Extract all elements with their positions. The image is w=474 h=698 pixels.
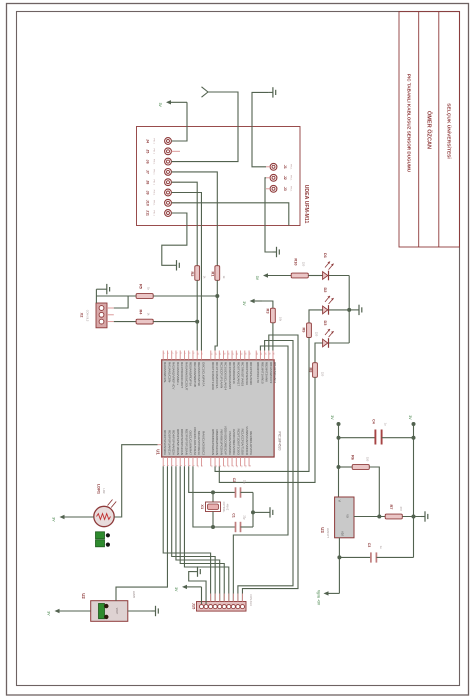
resistor R3 <box>266 308 283 323</box>
connector pad J11 <box>146 210 181 217</box>
svg-text:PIN 1: PIN 1 <box>153 149 155 155</box>
label X2 <box>80 310 89 322</box>
resistor R5 <box>136 284 153 298</box>
wire pad J2 to ground <box>265 178 273 252</box>
svg-text:C1: C1 <box>232 513 236 518</box>
svg-text:OSC2/CLKOUT/RA6: OSC2/CLKOUT/RA6 <box>193 427 197 455</box>
title text SELCUK UNIVERSITESI <box>446 103 453 159</box>
svg-text:PIN 1: PIN 1 <box>153 190 155 196</box>
wire X2 left to ground <box>95 289 97 303</box>
wire U1 pin to J15 pad 5 <box>176 466 220 604</box>
svg-text:Vgiris +3V: Vgiris +3V <box>317 590 321 606</box>
svg-text:PIN 1: PIN 1 <box>290 186 292 192</box>
svg-text:4MHZ: 4MHZ <box>226 504 229 511</box>
svg-text:RD0/PSP0/AN19: RD0/PSP0/AN19 <box>245 362 249 385</box>
svg-text:MCLR/VPP/RE3A: MCLR/VPP/RE3A <box>197 431 201 455</box>
svg-text:ADJ: ADJ <box>341 531 344 536</box>
svg-text:RC1/CCP2A/T1OSI: RC1/CCP2A/T1OSI <box>241 429 245 456</box>
wire LDR to U1 left pin <box>114 445 157 517</box>
label U2 <box>81 591 136 599</box>
svg-text:J9: J9 <box>146 190 150 194</box>
svg-text:U3: U3 <box>320 527 325 533</box>
svg-text:22p: 22p <box>242 515 245 520</box>
svg-text:J3: J3 <box>283 187 287 191</box>
wire R4 to R2 node <box>153 321 197 323</box>
wire pad J9 down <box>171 193 201 351</box>
wire MCU RB pin to J15 pad 9 <box>238 341 293 605</box>
wire 3V to pad J4 <box>171 102 187 141</box>
wire D1 cathode to rail <box>329 275 349 277</box>
wire R5 left <box>96 295 136 297</box>
svg-text:3V: 3V <box>255 276 259 281</box>
svg-text:C2: C2 <box>232 478 236 483</box>
svg-text:R8: R8 <box>308 368 313 374</box>
svg-text:J6: J6 <box>146 160 150 164</box>
wire D3 cathode to rail <box>329 342 349 344</box>
svg-text:RB2/INT2/AN8: RB2/INT2/AN8 <box>265 362 269 382</box>
wire antenna to pad J6 <box>171 92 238 162</box>
wire R8 to MCU pin <box>219 377 315 482</box>
power arrow 3V for R10 <box>255 273 291 280</box>
svg-text:RA3/AN3/VREF+: RA3/AN3/VREF+ <box>176 362 180 385</box>
power arrow 3V for R3 <box>242 299 262 306</box>
connector pad J8 <box>146 179 181 186</box>
LED D2 <box>323 288 334 315</box>
svg-text:PIN 1: PIN 1 <box>153 138 155 144</box>
svg-text:J8: J8 <box>146 180 150 184</box>
svg-text:470: 470 <box>399 506 403 511</box>
wire pad J8 to R2 <box>171 182 197 266</box>
svg-text:C3: C3 <box>367 543 371 548</box>
svg-text:J10: J10 <box>146 200 150 206</box>
svg-text:RC4/SDI/SDA/AN15: RC4/SDI/SDA/AN15 <box>228 362 232 390</box>
svg-text:R9: R9 <box>301 328 306 334</box>
svg-text:RB7/KBI3/PGD/AN: RB7/KBI3/PGD/AN <box>219 429 223 455</box>
terminal block X2 <box>96 303 114 328</box>
wire U3 VO to R7 <box>354 516 385 518</box>
node 3V right rail <box>408 415 415 426</box>
LED D3 <box>323 321 334 348</box>
svg-text:X2: X2 <box>80 313 85 319</box>
U1 pin numbers <box>162 353 274 469</box>
svg-text:RB6/KBI2/PGC/AN: RB6/KBI2/PGC/AN <box>215 429 219 455</box>
wire D2 anode to R9 <box>309 310 323 323</box>
svg-text:3V: 3V <box>158 103 162 108</box>
capacitor C3 <box>339 543 413 563</box>
svg-text:RB3/AN9/CCP2: RB3/AN9/CCP2 <box>269 362 273 384</box>
sensor U2 LM35 body <box>91 601 128 622</box>
wire pad J7 to R1 <box>171 172 217 266</box>
label PIC18F4520 <box>278 431 282 450</box>
svg-text:VDD/VDDCORE/CAP: VDD/VDDCORE/CAP <box>224 426 228 455</box>
svg-text:RD1/PSP1/AN20: RD1/PSP1/AN20 <box>249 362 253 385</box>
svg-text:22p: 22p <box>242 480 245 485</box>
wire X2 pin1 jog to R5 net <box>114 296 128 308</box>
node OSC1 <box>211 490 215 494</box>
ground U2 <box>128 606 159 616</box>
label UDEA UFM-M11 <box>303 185 309 224</box>
resistor R8 <box>308 363 324 378</box>
svg-text:RB5/KBI1/PGM/AN: RB5/KBI1/PGM/AN <box>211 429 215 455</box>
svg-text:VSS/AVSS/GNDA: VSS/AVSS/GNDA <box>228 431 232 455</box>
svg-text:220: 220 <box>321 372 325 377</box>
svg-text:PIC TABANLI KABLOSUZ SENSOR DU: PIC TABANLI KABLOSUZ SENSOR DUGUMU <box>407 74 412 173</box>
wire R2 to MCU <box>195 280 199 350</box>
svg-text:J1: J1 <box>283 165 287 169</box>
antenna <box>202 87 209 97</box>
svg-text:RA0/AN0/C1IN-: RA0/AN0/C1IN- <box>163 362 167 383</box>
wire left rail <box>337 424 341 497</box>
connector pad J1 <box>266 163 292 170</box>
svg-text:RB1/INT1/AN10: RB1/INT1/AN10 <box>260 362 264 384</box>
svg-text:CON-SIL9: CON-SIL9 <box>249 594 252 606</box>
wire U2 VOUT to U1 <box>116 466 167 601</box>
wire U3 ADJ down <box>337 538 341 594</box>
ground R7 <box>403 511 428 521</box>
svg-text:OSC1/CLKIN/RA7: OSC1/CLKIN/RA7 <box>189 430 193 455</box>
svg-text:J5: J5 <box>146 149 150 153</box>
resistor R10 <box>291 258 308 277</box>
svg-text:PIN 1: PIN 1 <box>290 164 292 170</box>
svg-text:RD3/PSP3/AN21A: RD3/PSP3/AN21A <box>167 430 171 455</box>
svg-text:R10: R10 <box>293 258 298 265</box>
wire U1 pin to J15 pad 7 <box>184 466 228 604</box>
connector pad J5 <box>146 148 181 155</box>
wire R1 to MCU <box>215 280 219 350</box>
power arrow 3V LDR <box>52 515 94 522</box>
svg-text:C4: C4 <box>371 419 375 424</box>
regulator U3 body <box>335 497 354 538</box>
wire MCU RB pin to J15 pad 10 <box>242 335 298 604</box>
svg-text:RC2/CCP1/P1A/AN: RC2/CCP1/P1A/AN <box>219 362 223 388</box>
svg-text:PIN 1: PIN 1 <box>153 179 155 185</box>
U1 left side pin stub RA6 <box>158 444 162 446</box>
connector pad J2 <box>266 174 292 181</box>
ground crystal <box>253 507 273 517</box>
svg-text:R6: R6 <box>350 455 355 461</box>
wire D2 cathode to rail <box>329 309 349 311</box>
svg-text:D3: D3 <box>323 321 328 327</box>
svg-text:CRYSTAL: CRYSTAL <box>222 502 225 513</box>
power arrow 3V U2 <box>47 609 91 616</box>
svg-text:RC0/T1OSO/T13CKI: RC0/T1OSO/T13CKI <box>211 362 215 390</box>
U1 pin stubs <box>163 351 273 467</box>
wire R3 to MCU <box>272 323 274 351</box>
resistor R9 <box>301 323 318 338</box>
wire R6 to R7 node <box>369 467 381 519</box>
svg-text:X1: X1 <box>200 504 205 510</box>
svg-text:3V: 3V <box>330 415 334 420</box>
microcontroller U1 PIC18F4520 body <box>162 360 274 457</box>
title text OMER OZCAN <box>425 111 432 149</box>
svg-text:PIN 1: PIN 1 <box>153 159 155 165</box>
capacitor C2 <box>213 478 253 498</box>
svg-text:220: 220 <box>301 262 305 267</box>
connector pad J10 <box>146 199 181 206</box>
svg-text:J2: J2 <box>283 176 287 180</box>
ground J15 pin2 <box>189 566 206 604</box>
svg-text:RA6/CLKO/OSC2: RA6/CLKO/OSC2 <box>201 431 205 455</box>
wire U1 OSC2 to crystal <box>193 466 213 527</box>
resistor R6 <box>339 455 370 469</box>
svg-text:RE0/AN5/RD/P3A: RE0/AN5/RD/P3A <box>189 362 193 386</box>
svg-text:RA4/T0CKI/C1OUT: RA4/T0CKI/C1OUT <box>180 362 184 388</box>
connector J15 body <box>197 594 247 612</box>
ground X2 <box>96 284 109 294</box>
wire U1 OSC1 to crystal <box>189 466 213 492</box>
wire R10 to D1 <box>308 275 322 277</box>
svg-text:VO: VO <box>346 514 349 518</box>
svg-text:LDR1: LDR1 <box>97 484 102 495</box>
power arrow 3V J15 <box>174 585 201 604</box>
title text PIC TABANLI KABLOSUZ SENSOR DUGUMU <box>407 74 412 173</box>
wire R5 to R1 node <box>153 295 217 297</box>
svg-text:330: 330 <box>365 457 369 462</box>
svg-text:R5: R5 <box>138 284 143 290</box>
wire 3V to R3 <box>262 301 273 308</box>
connector pad J6 <box>146 158 181 165</box>
power arrow 3V top <box>158 100 187 107</box>
svg-text:J15: J15 <box>192 603 197 610</box>
svg-text:LDR: LDR <box>102 488 105 493</box>
ground below RF box left <box>173 260 180 270</box>
resistor R2 <box>190 266 207 281</box>
svg-text:PIN 1: PIN 1 <box>153 210 155 216</box>
connector pad J9 <box>146 189 181 196</box>
wire pad J10 long <box>171 203 288 226</box>
svg-text:RD2/PSP2/AN20A: RD2/PSP2/AN20A <box>163 430 167 455</box>
svg-text:UDEA UFM-M11: UDEA UFM-M11 <box>303 185 309 224</box>
svg-text:RE2/AN7/CS/P3C: RE2/AN7/CS/P3C <box>197 362 201 387</box>
svg-text:RA5/AN4/SS/C2OUT: RA5/AN4/SS/C2OUT <box>184 362 188 391</box>
wire U1 pin to J15 pad 4 <box>172 466 215 604</box>
svg-text:RC1/T1OSI/CCP2A: RC1/T1OSI/CCP2A <box>215 362 219 388</box>
resistor R1 <box>211 266 226 281</box>
svg-text:D2: D2 <box>323 288 328 294</box>
svg-text:PIN 1: PIN 1 <box>153 169 155 175</box>
wire pad J11 to ground zigzag <box>162 213 187 265</box>
svg-text:ÖMER ÖZCAN: ÖMER ÖZCAN <box>425 111 432 149</box>
svg-text:R3: R3 <box>266 309 271 315</box>
RF module box UDEA UFM-M11 <box>137 127 301 226</box>
wire U1 pin to J15 pad 3 <box>163 466 210 604</box>
svg-text:RB4/KBI0/AN11: RB4/KBI0/AN11 <box>273 362 277 384</box>
node OSC2 <box>211 525 215 529</box>
LED cathode rail <box>347 276 351 344</box>
svg-text:RD5/PSP5/P1B/AN: RD5/PSP5/P1B/AN <box>176 429 180 455</box>
resistor R4 <box>136 310 153 324</box>
wire R9 to MCU pin <box>215 337 309 471</box>
ground below RF box right <box>273 247 280 257</box>
label U3 <box>320 527 330 538</box>
ground top right <box>252 87 276 167</box>
connector pad J3 <box>266 185 292 192</box>
svg-text:U2: U2 <box>81 593 86 599</box>
title block box <box>399 12 460 247</box>
svg-text:RD6/PSP6/P1C/AN: RD6/PSP6/P1C/AN <box>180 429 184 455</box>
svg-text:220: 220 <box>315 332 319 337</box>
svg-text:RD7/PSP7/P1D/AN: RD7/PSP7/P1D/AN <box>184 429 188 455</box>
capacitor C1 <box>213 513 253 532</box>
svg-text:3V: 3V <box>52 517 56 522</box>
svg-text:VI: VI <box>337 500 340 503</box>
svg-text:10k: 10k <box>278 317 282 322</box>
svg-text:3V: 3V <box>174 587 178 592</box>
svg-text:PIC18F4520: PIC18F4520 <box>278 431 282 450</box>
svg-text:D1: D1 <box>323 253 328 259</box>
crystal X1 <box>200 492 229 527</box>
svg-text:PIN 1: PIN 1 <box>290 175 292 181</box>
resistor R7 <box>385 505 403 519</box>
label U1 <box>156 449 161 455</box>
svg-text:U1: U1 <box>156 449 161 455</box>
svg-text:RE1/AN6/WR/P3B: RE1/AN6/WR/P3B <box>193 362 197 387</box>
svg-text:SELÇUK ÜNİVERSİTESİ: SELÇUK ÜNİVERSİTESİ <box>446 103 453 159</box>
svg-text:RE3/MCLR/VPPA: RE3/MCLR/VPPA <box>249 431 253 455</box>
svg-text:RC5/SDO/AN16: RC5/SDO/AN16 <box>232 362 236 384</box>
LED D1 <box>323 253 334 280</box>
svg-text:RC7/RX/DT/AN18: RC7/RX/DT/AN18 <box>241 362 245 387</box>
svg-text:R7: R7 <box>389 505 394 510</box>
label J15 <box>192 594 252 610</box>
wire crystal cap rail <box>251 492 255 527</box>
svg-text:OSC1/CLKI/RA7A: OSC1/CLKI/RA7A <box>201 362 205 386</box>
svg-text:J11: J11 <box>146 210 150 216</box>
svg-text:LM317T: LM317T <box>326 528 330 539</box>
jumper pads below LDR <box>96 532 111 547</box>
capacitor C4 <box>339 419 414 444</box>
wire X2 pin3 to R4 <box>114 321 136 323</box>
svg-text:PIN 1: PIN 1 <box>153 200 155 206</box>
power input Vgiris +3V <box>317 590 340 606</box>
svg-text:VUSB/VCAP/VDDCR: VUSB/VCAP/VDDCR <box>245 426 249 456</box>
wire U1 pin to J15 pad 6 <box>180 466 224 604</box>
svg-text:CON-SIL3: CON-SIL3 <box>86 310 89 322</box>
svg-text:RA2/AN2/VREF-/CV: RA2/AN2/VREF-/CV <box>172 362 176 389</box>
connector pad J7 <box>146 169 181 176</box>
svg-text:R2: R2 <box>190 272 195 278</box>
wire right rail <box>412 424 416 557</box>
connector pad J4 <box>146 138 181 145</box>
U1 pin names <box>163 362 277 456</box>
svg-text:VOUT: VOUT <box>115 608 117 615</box>
svg-text:3V: 3V <box>242 301 246 306</box>
svg-text:RC3/SCK/SCL/AN14: RC3/SCK/SCL/AN14 <box>224 362 228 390</box>
svg-text:J7: J7 <box>146 170 150 174</box>
svg-text:AVDD/VREF/VDDA: AVDD/VREF/VDDA <box>232 429 236 455</box>
svg-text:RB0/INT0/FLT0: RB0/INT0/FLT0 <box>256 362 260 383</box>
node 3V left rail <box>330 415 341 426</box>
photoresistor LDR1 <box>94 484 116 527</box>
svg-text:RA1/AN1/C2IN-: RA1/AN1/C2IN- <box>167 362 171 383</box>
svg-text:R1: R1 <box>211 272 216 278</box>
svg-text:RC0/T1CKI/T1OSO: RC0/T1CKI/T1OSO <box>236 429 240 456</box>
svg-text:3V: 3V <box>408 415 412 420</box>
ground LED rail <box>349 305 362 315</box>
wire MCU RB pin to J15 pad 8 <box>233 346 288 604</box>
wire D3 anode to R8 <box>315 343 323 363</box>
svg-text:R4: R4 <box>138 310 143 316</box>
svg-text:RD4/PSP4/AN22A: RD4/PSP4/AN22A <box>172 430 176 455</box>
svg-text:RC6/TX/CK/AN17: RC6/TX/CK/AN17 <box>236 362 240 386</box>
svg-text:3V: 3V <box>47 611 51 616</box>
svg-text:LM35: LM35 <box>132 591 136 599</box>
